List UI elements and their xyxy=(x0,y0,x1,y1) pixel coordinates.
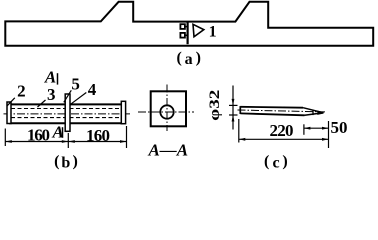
svg-text:1: 1 xyxy=(209,23,217,40)
svg-text:4: 4 xyxy=(88,80,97,99)
svg-text:50: 50 xyxy=(331,118,348,137)
svg-text:A—A: A—A xyxy=(147,141,188,160)
svg-text:a: a xyxy=(185,51,193,68)
svg-text:c: c xyxy=(272,154,279,170)
svg-text:(: ( xyxy=(177,50,182,67)
svg-text:5: 5 xyxy=(71,74,80,93)
svg-text:): ) xyxy=(282,153,287,170)
svg-text:(: ( xyxy=(54,153,59,170)
svg-text:160: 160 xyxy=(27,126,50,145)
svg-text:A: A xyxy=(44,68,56,87)
svg-text:φ32: φ32 xyxy=(207,90,223,121)
svg-text:): ) xyxy=(73,153,78,170)
svg-text:3: 3 xyxy=(47,85,56,104)
svg-text:160: 160 xyxy=(86,126,110,145)
svg-text:(: ( xyxy=(264,153,269,170)
svg-text:2: 2 xyxy=(17,82,26,101)
svg-text:b: b xyxy=(61,154,70,170)
svg-text:): ) xyxy=(196,50,201,67)
svg-text:220: 220 xyxy=(270,121,294,140)
